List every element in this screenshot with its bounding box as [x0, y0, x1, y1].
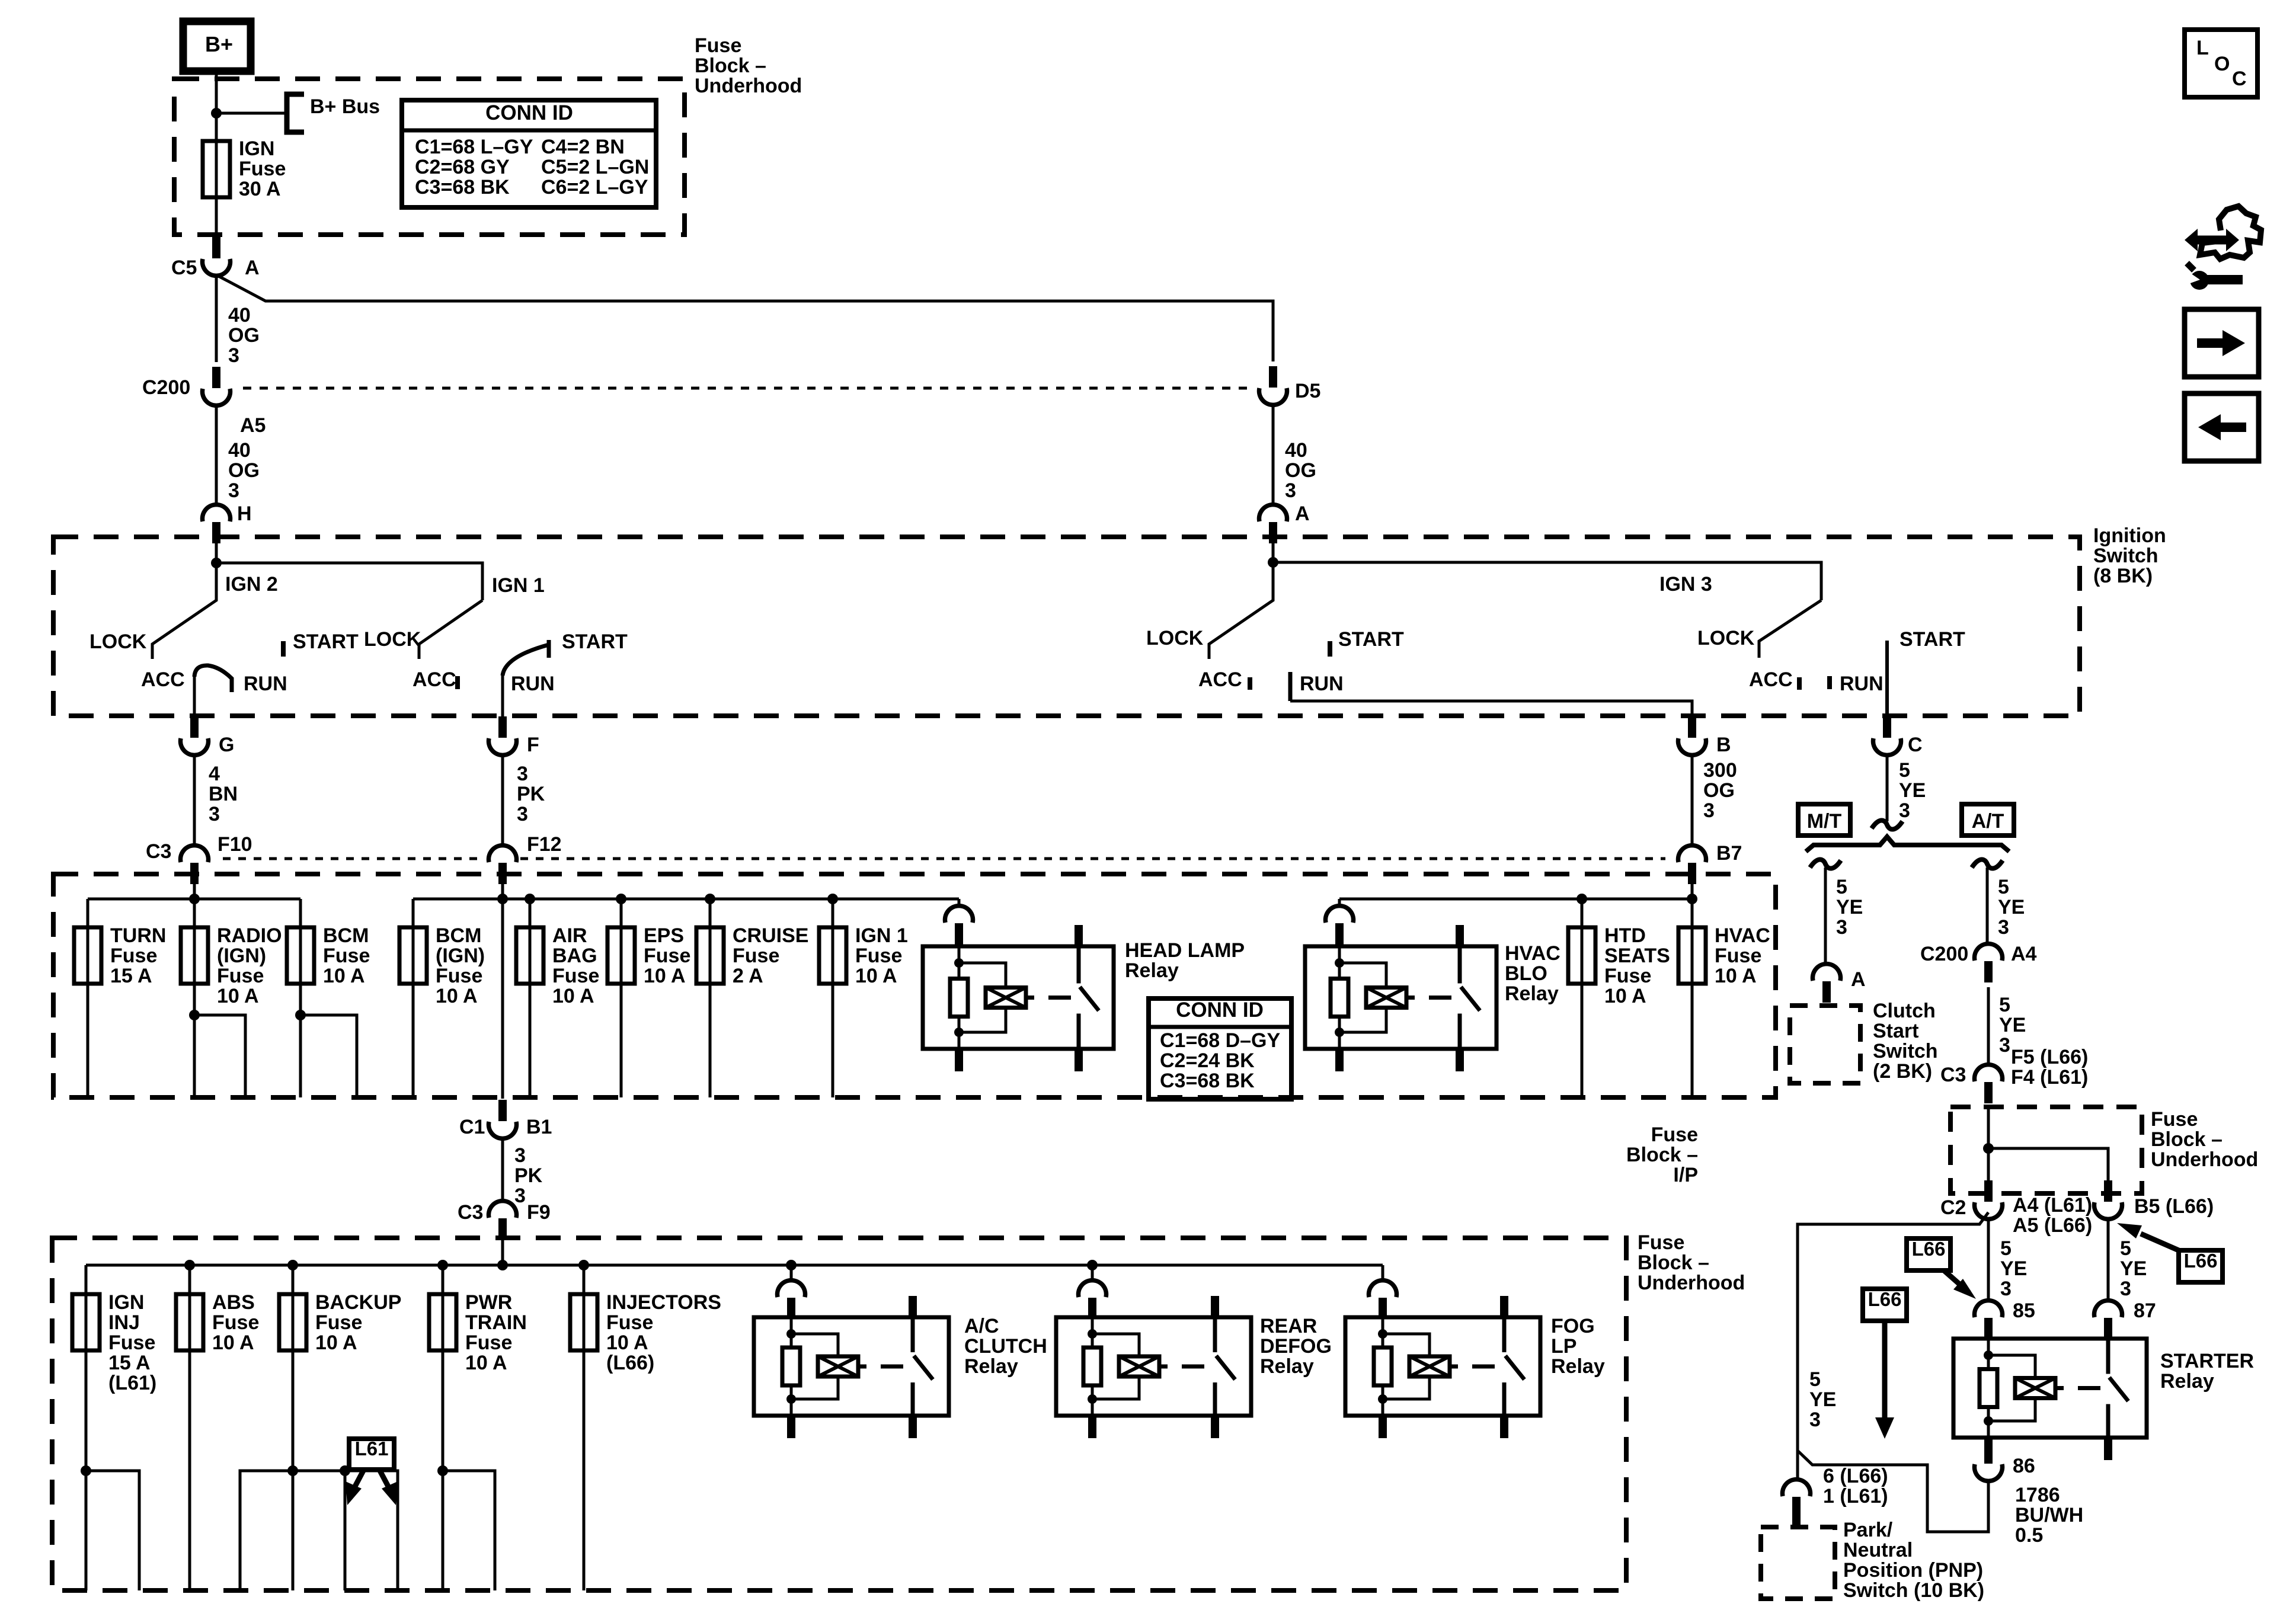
- svg-text:Park/: Park/: [1843, 1519, 1893, 1541]
- wire IGN1 branch: [216, 563, 482, 600]
- svg-text:5: 5: [1899, 759, 1910, 782]
- svg-text:10 A: 10 A: [217, 985, 259, 1007]
- wire G down: [193, 754, 196, 846]
- wire F9 into block: [501, 1238, 504, 1265]
- svg-text:HEAD LAMP: HEAD LAMP: [1125, 939, 1245, 962]
- wire bus to EPS fuse: [620, 899, 623, 927]
- svg-text:BCM: BCM: [323, 924, 369, 947]
- svg-text:M/T: M/T: [1807, 810, 1842, 833]
- svg-text:L66: L66: [1868, 1288, 1902, 1310]
- node IGNINJ split: [81, 1465, 91, 1476]
- wire bus to ABS fuse: [188, 1265, 191, 1294]
- svg-text:Underhood: Underhood: [1638, 1272, 1745, 1294]
- icon arrow left box: [2185, 393, 2259, 461]
- svg-text:START: START: [1900, 628, 1965, 651]
- svg-text:Fuse: Fuse: [1604, 965, 1651, 987]
- svg-text:LOCK: LOCK: [1146, 627, 1204, 649]
- svg-text:10 A: 10 A: [436, 985, 478, 1007]
- svg-text:IGN 2: IGN 2: [225, 573, 278, 596]
- svg-text:YE: YE: [1999, 1014, 2026, 1036]
- relay HEAD LAMP: [923, 946, 1114, 1049]
- wire bus to PWRTRAIN fuse: [442, 1265, 445, 1294]
- connector C2 pin B5: [2104, 1180, 2112, 1202]
- wire sw2 RUN down: [501, 674, 504, 718]
- relay FOG LP: [1345, 1317, 1540, 1416]
- svg-text:YE: YE: [1998, 896, 2025, 918]
- svg-text:3: 3: [2000, 1278, 2012, 1300]
- svg-text:10 A: 10 A: [212, 1331, 254, 1354]
- svg-text:L61: L61: [355, 1438, 389, 1459]
- node BACKUP split2: [340, 1465, 350, 1476]
- svg-text:Fuse: Fuse: [110, 945, 157, 967]
- wire bus to HTD fuse: [1581, 899, 1584, 927]
- svg-text:3: 3: [1703, 799, 1715, 822]
- svg-text:Fuse: Fuse: [1651, 1124, 1698, 1146]
- node CRUISE bus: [705, 894, 715, 904]
- svg-text:TURN: TURN: [110, 924, 166, 947]
- wire D5 to A: [1272, 404, 1275, 505]
- wire RADIO out jog: [194, 1015, 245, 1097]
- svg-text:HVAC: HVAC: [1715, 924, 1770, 947]
- wire sw3 RUN to B: [1290, 701, 1692, 718]
- wire A4A5 down to 85: [1987, 1218, 1990, 1301]
- svg-text:RUN: RUN: [1840, 673, 1884, 695]
- svg-text:Relay: Relay: [1125, 959, 1179, 982]
- svg-text:Start: Start: [1873, 1020, 1918, 1042]
- svg-text:Fuse: Fuse: [2151, 1108, 2198, 1131]
- svg-text:F4 (L61): F4 (L61): [2011, 1066, 2088, 1089]
- svg-text:3: 3: [517, 803, 528, 825]
- svg-text:Switch: Switch: [1873, 1040, 1938, 1062]
- svg-text:Block –: Block –: [1626, 1144, 1698, 1166]
- svg-text:3: 3: [1998, 916, 2009, 939]
- svg-text:IGN: IGN: [108, 1291, 144, 1314]
- wire A to junction: [1272, 541, 1275, 562]
- connector C200 pin A4: [1984, 961, 1993, 982]
- fuse EPS 10A: [607, 927, 635, 984]
- svg-text:B1: B1: [526, 1116, 552, 1138]
- svg-text:C5: C5: [171, 257, 197, 279]
- svg-text:Clutch: Clutch: [1873, 1000, 1936, 1022]
- wire bus to DEFOG relay coil: [1091, 1265, 1094, 1282]
- svg-text:ACC: ACC: [1749, 668, 1793, 691]
- wire bus to BACKUP fuse: [292, 1265, 295, 1294]
- switch IGN2 wiper ACC-RUN: [194, 665, 232, 692]
- switch IGN3b arm to LOCK: [1759, 600, 1821, 658]
- svg-text:5: 5: [1809, 1368, 1821, 1391]
- wire BACKUP branch mid: [344, 1471, 347, 1590]
- svg-text:ABS: ABS: [212, 1291, 255, 1314]
- svg-text:CRUISE: CRUISE: [733, 924, 808, 947]
- connector C3 pin F10: [190, 863, 199, 884]
- bus F10 group: [88, 898, 300, 901]
- switch IGN3a arm to LOCK: [1209, 562, 1273, 659]
- svg-text:3: 3: [1836, 916, 1847, 939]
- svg-text:5: 5: [1998, 876, 2009, 898]
- svg-text:HVAC: HVAC: [1505, 942, 1560, 965]
- wire IGNINJ out jog: [86, 1471, 139, 1590]
- relay REAR DEFOG: [1056, 1317, 1251, 1416]
- wire branch to right leg: [216, 275, 1273, 361]
- svg-text:A4: A4: [2011, 943, 2037, 965]
- fuse AIR BAG 10A: [516, 927, 543, 984]
- svg-text:Fuse: Fuse: [239, 158, 286, 180]
- svg-text:LOCK: LOCK: [89, 630, 147, 653]
- relay STARTER: [1953, 1339, 2147, 1438]
- connector C (start): [1883, 716, 1891, 738]
- switch IGN1 arm to LOCK: [419, 600, 482, 659]
- tick ACC (sw2): [455, 676, 460, 689]
- harness line C3 I/P: [223, 857, 485, 860]
- wire EPS out: [620, 984, 623, 1097]
- svg-text:3: 3: [1899, 799, 1910, 822]
- PNP switch dashed box: [1761, 1527, 1835, 1599]
- svg-text:PK: PK: [517, 783, 545, 805]
- svg-text:START: START: [1338, 628, 1404, 651]
- fuse PWR TRAIN 10A: [429, 1294, 456, 1350]
- svg-text:10 A: 10 A: [1715, 965, 1757, 987]
- svg-text:3: 3: [209, 803, 220, 825]
- node AC relay bus: [786, 1260, 797, 1270]
- connector FOG LP relay coil: [1379, 1298, 1387, 1319]
- wire bus to AC relay coil: [790, 1265, 793, 1282]
- connector A clutch start: [1822, 981, 1831, 1003]
- svg-text:C2=24 BK: C2=24 BK: [1160, 1049, 1255, 1072]
- svg-text:C: C: [2232, 68, 2247, 90]
- wire bus to BCMIGN fuse: [412, 899, 415, 927]
- harness line C200: [243, 387, 1255, 390]
- svg-text:CLUTCH: CLUTCH: [964, 1335, 1047, 1358]
- tick START (sw1): [281, 641, 286, 657]
- svg-text:3: 3: [2120, 1278, 2131, 1300]
- connector REAR DEFOG relay coil: [1088, 1298, 1096, 1319]
- svg-text:B: B: [1716, 734, 1731, 756]
- tick START (sw3): [1328, 641, 1332, 657]
- svg-text:10 A: 10 A: [465, 1352, 507, 1374]
- bus underhood: [86, 1264, 1383, 1267]
- fuse INJECTORS 10A: [570, 1294, 597, 1350]
- svg-text:Relay: Relay: [964, 1355, 1018, 1378]
- fuse BCM (IGN) 10A: [399, 927, 427, 984]
- svg-text:SEATS: SEATS: [1604, 945, 1670, 967]
- connector PNP pin: [1792, 1497, 1801, 1518]
- squiggle A/T branch: [1972, 859, 2003, 868]
- svg-text:300: 300: [1703, 759, 1737, 782]
- svg-text:85: 85: [2013, 1299, 2035, 1322]
- svg-text:Underhood: Underhood: [695, 75, 802, 97]
- svg-text:C1=68 L–GY: C1=68 L–GY: [415, 136, 533, 158]
- fuse CRUISE 2A: [696, 927, 724, 984]
- svg-text:0.5: 0.5: [2015, 1524, 2043, 1547]
- relay FOG switch top stub: [1500, 1296, 1508, 1318]
- svg-text:10 A: 10 A: [644, 965, 686, 987]
- wire A4A5 branch to PNP: [1798, 1212, 1988, 1480]
- svg-text:BLO: BLO: [1505, 962, 1547, 985]
- svg-text:Fuse: Fuse: [212, 1311, 259, 1334]
- svg-text:10 A: 10 A: [1604, 985, 1646, 1007]
- svg-text:LP: LP: [1551, 1335, 1576, 1358]
- svg-text:10 A: 10 A: [552, 985, 594, 1007]
- fuse BCM 10A: [287, 927, 314, 984]
- svg-text:IGN 1: IGN 1: [492, 574, 545, 597]
- svg-text:2 A: 2 A: [733, 965, 763, 987]
- tick RUN (sw4): [1827, 676, 1832, 689]
- svg-text:YE: YE: [2120, 1257, 2147, 1280]
- svg-text:BAG: BAG: [552, 945, 597, 967]
- svg-text:YE: YE: [1899, 779, 1926, 802]
- wire bus to INJECTORS fuse: [583, 1265, 586, 1294]
- wire CRUISE out: [709, 984, 712, 1097]
- wire IGN3 branch: [1273, 562, 1821, 600]
- node HTD bus: [1576, 894, 1587, 904]
- svg-text:C3=68 BK: C3=68 BK: [415, 176, 510, 199]
- svg-text:PK: PK: [514, 1164, 543, 1187]
- wire F12 down to C1: [501, 899, 504, 1099]
- svg-text:40: 40: [228, 304, 251, 327]
- svg-text:86: 86: [2013, 1455, 2035, 1477]
- wire 86 to PNP node: [1798, 1451, 1988, 1532]
- svg-text:F: F: [527, 734, 539, 756]
- svg-text:C: C: [1908, 734, 1923, 756]
- ignition switch dashed box: [53, 537, 2080, 716]
- connector C3 F5/F4: [1984, 1082, 1993, 1103]
- svg-text:C5=2 L–GN: C5=2 L–GN: [541, 156, 649, 178]
- wire bus to BCM fuse: [299, 899, 302, 927]
- node AIRBAG bus: [525, 894, 535, 904]
- wire INJECTORS out: [583, 1350, 586, 1590]
- svg-text:3: 3: [514, 1144, 526, 1167]
- svg-text:DEFOG: DEFOG: [1260, 1335, 1332, 1358]
- wire bus to IGNINJ fuse: [85, 1265, 88, 1294]
- svg-text:87: 87: [2134, 1299, 2156, 1322]
- fuse IGN 30A: [203, 141, 230, 197]
- svg-text:40: 40: [228, 439, 251, 462]
- connector C3 pin F12: [498, 863, 507, 884]
- svg-text:HTD: HTD: [1604, 924, 1646, 947]
- svg-text:BCM: BCM: [436, 924, 481, 947]
- svg-text:Fuse: Fuse: [315, 1311, 362, 1334]
- wire H to junction: [215, 541, 218, 563]
- svg-text:BACKUP: BACKUP: [315, 1291, 401, 1314]
- relay HVAC BLO: [1305, 946, 1496, 1049]
- wire bus to FOG relay: [1382, 1265, 1384, 1281]
- box A/T: [1962, 804, 2014, 836]
- svg-text:6 (L66): 6 (L66): [1823, 1465, 1888, 1487]
- svg-text:A4 (L61): A4 (L61): [2013, 1194, 2092, 1217]
- svg-text:Relay: Relay: [2160, 1370, 2214, 1393]
- svg-text:STARTER: STARTER: [2160, 1350, 2254, 1372]
- svg-text:LOCK: LOCK: [364, 628, 421, 651]
- svg-text:F5 (L66): F5 (L66): [2011, 1046, 2088, 1068]
- fuse HTD SEATS 10A: [1568, 927, 1595, 984]
- svg-text:Relay: Relay: [1551, 1355, 1605, 1378]
- svg-text:REAR: REAR: [1260, 1315, 1317, 1337]
- connector HVAC BLO relay coil: [1335, 923, 1344, 945]
- svg-text:10 A: 10 A: [606, 1331, 648, 1354]
- wire C5 to C200: [215, 275, 218, 362]
- svg-text:5: 5: [1836, 876, 1847, 898]
- wire C200 to H: [215, 405, 218, 505]
- wire B1 to F9: [501, 1138, 504, 1202]
- wire M/T branch: [1824, 868, 1827, 965]
- fuse IGN1 10A: [819, 927, 846, 984]
- wire B7 into block: [1691, 883, 1694, 927]
- svg-text:(IGN): (IGN): [436, 945, 485, 967]
- node IGN2 junction: [211, 558, 222, 568]
- wire F10 into block: [193, 883, 196, 927]
- connector C5 pin A: [212, 237, 220, 258]
- connector D5: [1269, 366, 1277, 388]
- svg-text:L66: L66: [2184, 1250, 2218, 1272]
- svg-text:L: L: [2196, 37, 2209, 59]
- svg-text:C3: C3: [1940, 1064, 1966, 1086]
- svg-text:Block –: Block –: [2151, 1128, 2223, 1151]
- wire IGN1 out: [832, 984, 834, 1097]
- svg-text:Fuse: Fuse: [695, 34, 741, 57]
- svg-text:3: 3: [1285, 479, 1296, 502]
- switch IGN2 arm to LOCK: [152, 563, 216, 659]
- svg-text:B5 (L66): B5 (L66): [2134, 1195, 2214, 1218]
- label L66 arrow box (to PNP wire): [1863, 1289, 1907, 1321]
- node ABS bus: [184, 1260, 195, 1270]
- label L66 arrow box (to 85 wire): [1907, 1238, 1950, 1270]
- wire RADIO out: [193, 984, 196, 1097]
- wire IGNINJ out: [85, 1350, 88, 1590]
- wire B+ to IGN fuse: [215, 71, 218, 151]
- svg-text:15 A: 15 A: [110, 965, 152, 987]
- node right block junction: [1983, 1143, 1994, 1154]
- svg-text:(2 BK): (2 BK): [1873, 1060, 1932, 1083]
- svg-text:A: A: [245, 257, 260, 279]
- svg-text:(L66): (L66): [606, 1352, 654, 1374]
- relay A/C CLUTCH: [754, 1317, 949, 1416]
- wire inside right block: [1987, 1106, 1990, 1191]
- svg-text:A/T: A/T: [1972, 810, 2004, 833]
- svg-text:5: 5: [2120, 1237, 2131, 1260]
- wire to B5 branch: [1988, 1148, 2108, 1191]
- svg-text:YE: YE: [1809, 1388, 1836, 1411]
- svg-text:1786: 1786: [2015, 1484, 2060, 1506]
- svg-text:C1: C1: [459, 1116, 485, 1138]
- svg-text:Fuse: Fuse: [1638, 1231, 1684, 1254]
- svg-text:Block –: Block –: [1638, 1251, 1709, 1274]
- svg-text:A: A: [1851, 968, 1866, 991]
- svg-text:A/C: A/C: [964, 1315, 999, 1337]
- svg-text:O: O: [2214, 53, 2230, 75]
- bus HVAC group: [1339, 898, 1692, 901]
- node PWRTRAIN split: [437, 1465, 448, 1476]
- wire HVAC out: [1691, 984, 1694, 1097]
- fuse block underhood bottom dashed box: [52, 1238, 1626, 1590]
- svg-text:Fuse: Fuse: [552, 965, 599, 987]
- wire C200A4 down: [1987, 987, 1990, 1065]
- svg-text:Fuse: Fuse: [108, 1331, 155, 1354]
- svg-text:Fuse: Fuse: [436, 965, 482, 987]
- connector 85: [1984, 1318, 1993, 1339]
- svg-text:Fuse: Fuse: [217, 965, 264, 987]
- svg-text:START: START: [293, 630, 359, 653]
- svg-text:CONN ID: CONN ID: [1176, 998, 1264, 1022]
- svg-text:IGN: IGN: [239, 137, 274, 160]
- wire B5 down to 87: [2107, 1218, 2110, 1301]
- svg-text:1 (L61): 1 (L61): [1823, 1485, 1888, 1507]
- svg-text:FOG: FOG: [1551, 1315, 1595, 1337]
- node IGN3 junction: [1268, 557, 1278, 568]
- svg-text:H: H: [237, 502, 252, 525]
- svg-text:5: 5: [2000, 1237, 2012, 1260]
- svg-text:A5 (L66): A5 (L66): [2013, 1214, 2092, 1237]
- node BACKUP split: [287, 1465, 298, 1476]
- svg-text:D5: D5: [1295, 380, 1320, 402]
- relay DEFOG switch top stub: [1211, 1296, 1219, 1318]
- svg-text:OG: OG: [228, 459, 260, 482]
- svg-text:4: 4: [209, 763, 220, 785]
- squiggle M/T branch: [1810, 859, 1841, 868]
- svg-text:Neutral: Neutral: [1843, 1539, 1913, 1561]
- svg-text:F9: F9: [527, 1201, 551, 1224]
- svg-text:B+: B+: [205, 32, 233, 56]
- wire BCM out: [299, 984, 302, 1097]
- node IGN1 bus: [827, 894, 838, 904]
- svg-text:Switch: Switch: [2093, 545, 2159, 567]
- svg-text:F12: F12: [527, 833, 562, 856]
- svg-text:BU/WH: BU/WH: [2015, 1504, 2083, 1526]
- svg-text:L66: L66: [1912, 1238, 1946, 1260]
- svg-text:LOCK: LOCK: [1697, 627, 1755, 649]
- wire bus to headlamp relay: [958, 899, 961, 907]
- svg-text:Fuse: Fuse: [323, 945, 370, 967]
- svg-text:C200: C200: [1920, 943, 1968, 965]
- svg-text:C3=68 BK: C3=68 BK: [1160, 1070, 1255, 1092]
- svg-text:F10: F10: [218, 833, 252, 856]
- svg-text:C3: C3: [458, 1201, 483, 1224]
- svg-text:RUN: RUN: [511, 673, 555, 695]
- wire bus to TURN fuse: [87, 899, 89, 927]
- node PWRTRAIN bus: [437, 1260, 448, 1270]
- connector A (ignition): [1269, 522, 1277, 543]
- wire C down: [1886, 754, 1889, 821]
- fuse block underhood top dashed box: [174, 79, 685, 235]
- wire F12 into block: [501, 883, 504, 899]
- node F12 bus: [497, 894, 508, 904]
- svg-text:Ignition: Ignition: [2093, 524, 2166, 547]
- node BACKUP bus: [287, 1260, 298, 1270]
- CONN ID table (underhood): [402, 100, 656, 207]
- svg-text:(IGN): (IGN): [217, 945, 266, 967]
- wire BACKUP jog right: [293, 1471, 398, 1590]
- B+ Bus bar symbol: [287, 94, 304, 132]
- svg-text:A5: A5: [240, 414, 266, 437]
- tick RUN (sw3): [1288, 672, 1293, 701]
- svg-text:3: 3: [517, 763, 528, 785]
- wire A/T branch: [1986, 868, 1989, 943]
- wire B down: [1691, 754, 1694, 846]
- fuse TURN 15A: [74, 927, 101, 984]
- svg-text:OG: OG: [228, 324, 260, 347]
- svg-text:Position (PNP): Position (PNP): [1843, 1559, 1983, 1582]
- node B7 bus: [1687, 894, 1697, 904]
- svg-text:PWR: PWR: [465, 1291, 512, 1314]
- relay HEAD LAMP switch top stub: [1075, 925, 1083, 948]
- svg-text:3: 3: [228, 344, 239, 367]
- connector C3 pin F9: [498, 1218, 507, 1240]
- box M/T: [1798, 804, 1850, 836]
- icon arrow right box: [2185, 309, 2259, 377]
- clutch start switch dashed box: [1790, 1006, 1860, 1083]
- svg-text:3: 3: [1999, 1034, 2010, 1057]
- svg-text:I/P: I/P: [1673, 1164, 1698, 1186]
- node F10 bus: [189, 894, 200, 904]
